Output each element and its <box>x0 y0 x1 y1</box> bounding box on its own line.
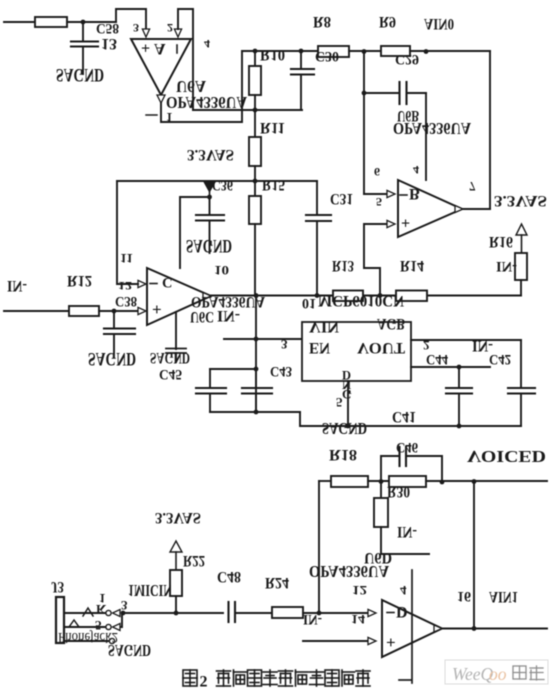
node - feedback node U6B <box>362 49 367 54</box>
wire - chip VOUT stub <box>411 366 490 368</box>
node B - R10/R11 junction <box>253 108 258 113</box>
svg-text:2: 2 <box>423 338 430 353</box>
node A - input node junction <box>81 20 86 25</box>
wire - audio input to R7 <box>4 21 35 23</box>
svg-text:C43: C43 <box>270 363 292 379</box>
wire - power stub to U6C pin 4 <box>180 197 210 268</box>
svg-text:7: 7 <box>469 179 476 194</box>
capacitor C29 (horizontal, U6B feedback) <box>364 92 399 94</box>
wire - AIN0 riser down to U6B output <box>489 51 491 209</box>
capacitor C58 <box>82 22 84 41</box>
wire - U6C inverting feed from feedback line <box>117 181 138 284</box>
wire - chip GND pin down <box>347 381 349 426</box>
wire - U6B pin 5 feed from R13/R14 node <box>364 224 387 295</box>
pin 1 tick <box>146 114 157 116</box>
wire - input node up-over to U6A pin 3 <box>116 9 146 30</box>
wire - U6D pin + input stub <box>303 640 368 642</box>
wire - U6C output rail y=295 <box>211 295 521 297</box>
wire - U6B output to AIN0 riser <box>462 208 490 210</box>
power tick bottom <box>399 679 411 681</box>
capacitor C31 <box>316 181 318 215</box>
power arrow 3.3VAS above R22 <box>170 541 182 552</box>
svg-text:3: 3 <box>121 598 128 613</box>
wire - top rail left part <box>242 50 318 52</box>
chip U7 body <box>302 322 411 381</box>
svg-text:C48: C48 <box>217 568 241 585</box>
svg-text:16: 16 <box>457 588 471 604</box>
resistor R16 <box>515 253 527 280</box>
svg-text:C29: C29 <box>395 51 419 67</box>
svg-text:R8: R8 <box>313 13 331 30</box>
svg-text:OPA4336UA: OPA4336UA <box>393 119 472 138</box>
jack switch zigzag pin2 <box>69 620 79 627</box>
pin arrow U6C non-inverting <box>138 307 146 314</box>
node - C40 right junction <box>440 480 445 485</box>
node - output/feedback junction <box>472 626 477 631</box>
svg-text:5: 5 <box>376 195 382 209</box>
wire - to chip pin 3 VIN <box>224 338 302 340</box>
svg-text:4: 4 <box>400 583 407 598</box>
wire - feedback line y=181 <box>117 180 317 182</box>
svg-text:AIN1: AIN1 <box>489 588 518 605</box>
svg-text:R30: R30 <box>387 483 410 500</box>
svg-text:SAGND: SAGND <box>186 235 232 256</box>
wire - U6A output to top rail <box>161 51 242 122</box>
capacitor C44 <box>458 367 460 388</box>
wire - chip pin 2 out <box>411 339 521 341</box>
wire - ground rail jog <box>300 412 521 426</box>
wire - mic line to C48 <box>125 612 223 614</box>
wire - U6C pin 11 stub <box>175 312 177 349</box>
node - C44 bottom junction <box>457 424 462 429</box>
svg-text:10: 10 <box>214 263 229 278</box>
resistor R7 (input series) <box>35 17 67 27</box>
wire - into U6B pin 6 <box>364 193 387 195</box>
svg-text:13: 13 <box>101 35 117 52</box>
jack J3 body <box>56 597 64 643</box>
minus marker U6B <box>400 194 407 196</box>
svg-text:1MICIN: 1MICIN <box>128 581 173 600</box>
svg-text:R18: R18 <box>329 446 357 463</box>
svg-text:C: C <box>162 274 172 290</box>
op-amp U6C <box>147 268 211 325</box>
svg-text:12: 12 <box>352 583 367 598</box>
node - jack pin1/3 junction <box>121 611 126 616</box>
svg-text:11: 11 <box>120 251 133 266</box>
wire - R12 to U6C pin + <box>99 310 138 312</box>
svg-text:MCP6010CN: MCP6010CN <box>318 292 404 309</box>
svg-text:+: + <box>401 214 410 231</box>
op-amp U6D <box>382 600 442 657</box>
svg-text:SAGND: SAGND <box>108 641 151 660</box>
output arrow U6C pin 10 <box>203 293 211 300</box>
node - C38 junction <box>112 309 117 314</box>
resistor R12 <box>69 306 99 316</box>
svg-text:C41: C41 <box>392 408 416 425</box>
output arrow U6B pin 7 <box>455 206 463 213</box>
svg-text:C42: C42 <box>489 351 511 367</box>
pin arrow U6B inverting <box>387 190 395 197</box>
op-amp U6A <box>131 39 191 95</box>
pin arrow U6B non-inverting <box>387 220 395 227</box>
svg-text:SAGND: SAGND <box>322 419 367 438</box>
resistor R22 <box>170 570 182 596</box>
svg-text:oo: oo <box>489 664 507 684</box>
svg-text:R14: R14 <box>400 257 424 274</box>
node - pin3 wire junction <box>254 337 259 342</box>
wire - top rail mid <box>349 50 381 52</box>
wire - R30 right <box>426 480 474 482</box>
svg-text:A: A <box>154 40 166 57</box>
wire - ground rail upper <box>210 411 300 413</box>
node - C30 top junction <box>299 49 304 54</box>
svg-text:R12: R12 <box>67 272 92 289</box>
svg-text:B: B <box>409 185 420 202</box>
svg-text:3: 3 <box>281 337 288 352</box>
svg-text:1: 1 <box>99 591 106 606</box>
node - chip GND junction <box>346 424 351 429</box>
svg-text:OPA4336UA: OPA4336UA <box>309 562 390 581</box>
svg-text:IN-: IN- <box>7 277 27 294</box>
resistor R11 <box>254 110 256 137</box>
svg-text:C30: C30 <box>315 48 339 64</box>
resistor R30 <box>389 476 426 487</box>
wire - feedback riser down to U6D out <box>473 481 475 629</box>
node - U6B plus-in junction <box>378 293 383 298</box>
svg-text:G: G <box>342 387 352 401</box>
capacitor C42 <box>520 340 522 388</box>
node - C36 top <box>207 195 212 200</box>
wire - R18 to node C <box>368 480 389 482</box>
caption figure 2 text <box>183 670 197 686</box>
capacitor C38 <box>113 311 115 328</box>
node C - R18/R30/C40/R19 junction <box>379 479 384 484</box>
resistor R14 <box>396 291 427 302</box>
output arrow U6A pin 1 <box>157 95 165 103</box>
capacitor C36 <box>209 197 211 215</box>
svg-text:4: 4 <box>413 163 419 177</box>
svg-text:C31: C31 <box>330 190 353 207</box>
node - C43 top junction <box>254 367 259 372</box>
jack switch zigzag pin1 <box>83 608 93 616</box>
svg-text:R15: R15 <box>262 176 285 193</box>
svg-text:IN-: IN- <box>397 523 417 540</box>
svg-text:3.3VAS: 3.3VAS <box>187 146 234 163</box>
resistor R19 (to IN-) <box>380 482 382 498</box>
svg-text:SAGND: SAGND <box>56 64 104 85</box>
output arrow U6D <box>434 625 442 632</box>
svg-text:EN: EN <box>309 339 330 356</box>
minus marker U6D <box>387 612 394 614</box>
node - C44 top junction <box>457 365 462 370</box>
svg-text:2: 2 <box>200 674 208 691</box>
jack pin 2 contact arrow <box>113 624 121 631</box>
watermark box WeeQoo <box>445 660 548 684</box>
node - R22/mic junction <box>174 611 179 616</box>
svg-text:3.3VAS: 3.3VAS <box>155 509 201 526</box>
svg-text:C46: C46 <box>396 439 418 455</box>
pin 2 arrow of U6A <box>174 29 181 37</box>
capacitor C45 <box>166 348 186 350</box>
power arrow 3.3VAS above R16 <box>516 224 527 235</box>
node - R10 top junction <box>253 49 258 54</box>
svg-text:D: D <box>396 603 408 620</box>
svg-text:01: 01 <box>302 295 316 311</box>
svg-text:R11: R11 <box>260 119 285 136</box>
wire - U6D power line vertical <box>411 570 413 683</box>
svg-text:J3: J3 <box>51 578 64 595</box>
jack pin 1 contact circle <box>106 610 111 615</box>
wire - feedback riser to R18 <box>318 481 320 613</box>
svg-text:VOUT: VOUT <box>357 339 405 356</box>
wire - to R18 <box>319 480 331 482</box>
wire - R7 to input node <box>67 21 116 23</box>
svg-text:C36: C36 <box>212 177 233 193</box>
jack pin 3 line (sleeve) <box>64 640 110 642</box>
wire - U6D output AIN1 <box>442 628 547 630</box>
svg-text:+: + <box>152 300 162 319</box>
capacitor C47 (left) <box>209 369 211 388</box>
svg-text:12: 12 <box>118 279 132 293</box>
svg-text:C58: C58 <box>96 20 119 36</box>
wire - U6C out down to chip pin 3 <box>255 296 257 413</box>
jack pin 3 contact circle <box>109 638 114 643</box>
svg-text:6: 6 <box>374 165 380 179</box>
svg-text:IN-: IN- <box>496 258 517 274</box>
svg-text:R16: R16 <box>489 233 513 250</box>
node - R15/C31 bottom junction <box>315 293 320 298</box>
wire - U6B inverting feed riser <box>363 51 365 194</box>
jack pin 1 contact arrow <box>113 610 121 617</box>
node - feedback/input junction U6D <box>317 611 322 616</box>
jack pin 1 line <box>64 612 107 614</box>
wire - R16 bottom to rail <box>520 280 522 296</box>
pin arrow U6D non-inverting <box>368 637 376 644</box>
wire - cap link <box>210 368 256 370</box>
svg-text:C45: C45 <box>159 366 182 382</box>
svg-text:C38: C38 <box>115 293 137 309</box>
node - feedback riser top <box>472 479 477 484</box>
resistor R15 <box>254 181 256 196</box>
resistor R24 <box>272 607 303 618</box>
svg-text:AGB: AGB <box>377 315 405 332</box>
capacitor C30 (vertical) <box>300 51 302 69</box>
svg-text:SAGND: SAGND <box>150 349 190 366</box>
wire - IN- input to R12 <box>4 310 69 312</box>
svg-text:R22: R22 <box>183 552 205 569</box>
jack pin 2 line <box>64 626 105 628</box>
svg-text:SAGND: SAGND <box>88 348 136 369</box>
svg-text:4: 4 <box>204 37 210 51</box>
wire - jack pin2 to pin1 node <box>121 613 122 627</box>
resistor R18 <box>331 476 368 487</box>
capacitor C40 parallel <box>381 456 399 481</box>
minus marker U6A (vertical bar) <box>176 45 178 53</box>
jack pin 2 contact circle <box>106 624 111 629</box>
wire - node B feedback wire y=110 <box>193 109 302 111</box>
resistor R13 <box>333 291 363 302</box>
minus marker U6C <box>150 283 157 285</box>
wire - U6A pin 2 feedback from node B <box>178 9 193 110</box>
svg-text:2: 2 <box>167 21 173 35</box>
svg-text:VIN: VIN <box>309 318 339 335</box>
svg-text:R24: R24 <box>265 574 289 591</box>
svg-text:WeeQ: WeeQ <box>452 664 494 684</box>
svg-text:14: 14 <box>351 612 366 627</box>
node - C29 left junction <box>362 91 367 96</box>
svg-text:+: + <box>141 39 150 56</box>
wire - VOICED net <box>474 480 547 482</box>
node - R9/C29 right junction <box>424 49 429 54</box>
resistor R10 (feedback) <box>254 51 256 66</box>
svg-text:3: 3 <box>133 21 139 35</box>
wire - R22 bottom to mic wire <box>175 596 177 613</box>
svg-text:R13: R13 <box>332 257 354 274</box>
capacitor C48 (horizontal) <box>227 602 229 622</box>
wire - top rail right <box>410 50 490 52</box>
pin arrow U6D inverting <box>368 609 376 616</box>
svg-text:R10: R10 <box>260 46 285 63</box>
svg-text:AIN0: AIN0 <box>424 15 454 32</box>
capacitor C43 <box>255 369 257 388</box>
resistor R8 <box>318 46 349 57</box>
svg-text:5: 5 <box>336 395 343 410</box>
node - C43 bottom junction <box>254 410 259 415</box>
node - R15 top junction <box>253 179 258 184</box>
svg-text:VOICED: VOICED <box>467 447 546 466</box>
svg-text:C44: C44 <box>426 351 448 367</box>
power arrow 3.3VAS (U6C, filled) <box>204 182 215 192</box>
pin arrow U6C inverting <box>138 280 146 287</box>
wire - U6B pin 4 stub <box>425 93 427 180</box>
svg-text:R9: R9 <box>379 13 396 30</box>
pin 3 arrow of U6A <box>142 29 149 37</box>
resistor R9 <box>381 46 410 56</box>
svg-text:+: + <box>386 633 396 652</box>
op-amp U6B <box>398 180 462 237</box>
node - U6C output branch junction <box>254 293 259 298</box>
svg-text:3.3VAS: 3.3VAS <box>494 192 547 209</box>
wire - R19 bottom stub <box>381 527 429 554</box>
wire - R24 to U6D pin minus <box>303 612 368 614</box>
